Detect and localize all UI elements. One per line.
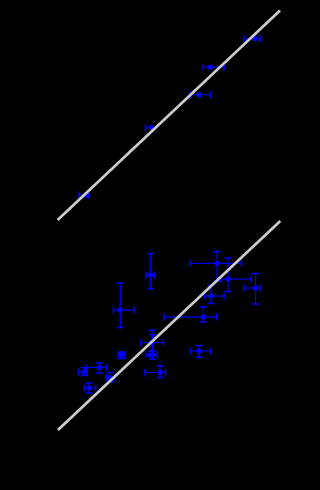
data point L bbox=[86, 363, 107, 373]
data point C bbox=[204, 286, 224, 304]
data point O bbox=[118, 352, 125, 359]
data point T4 bbox=[146, 124, 155, 131]
data point G bbox=[146, 335, 158, 359]
data point T2 bbox=[203, 64, 224, 71]
data point A bbox=[190, 252, 242, 282]
data point E bbox=[114, 283, 135, 328]
unity line, bottom panel bbox=[58, 221, 280, 430]
data point T1 bbox=[244, 35, 260, 42]
data point T3 bbox=[191, 91, 211, 98]
data point G2 bbox=[147, 352, 152, 357]
data point I bbox=[164, 307, 217, 322]
data point P1 bbox=[146, 254, 155, 290]
data point J bbox=[191, 346, 211, 358]
data point D bbox=[244, 274, 260, 305]
data point M bbox=[84, 383, 96, 393]
data point H bbox=[145, 366, 166, 378]
unity line, top panel bbox=[58, 11, 280, 221]
data point K bbox=[79, 368, 88, 376]
data point F bbox=[141, 330, 164, 351]
data point B bbox=[221, 258, 251, 292]
data point T5 bbox=[79, 192, 88, 199]
data point N bbox=[107, 373, 116, 383]
